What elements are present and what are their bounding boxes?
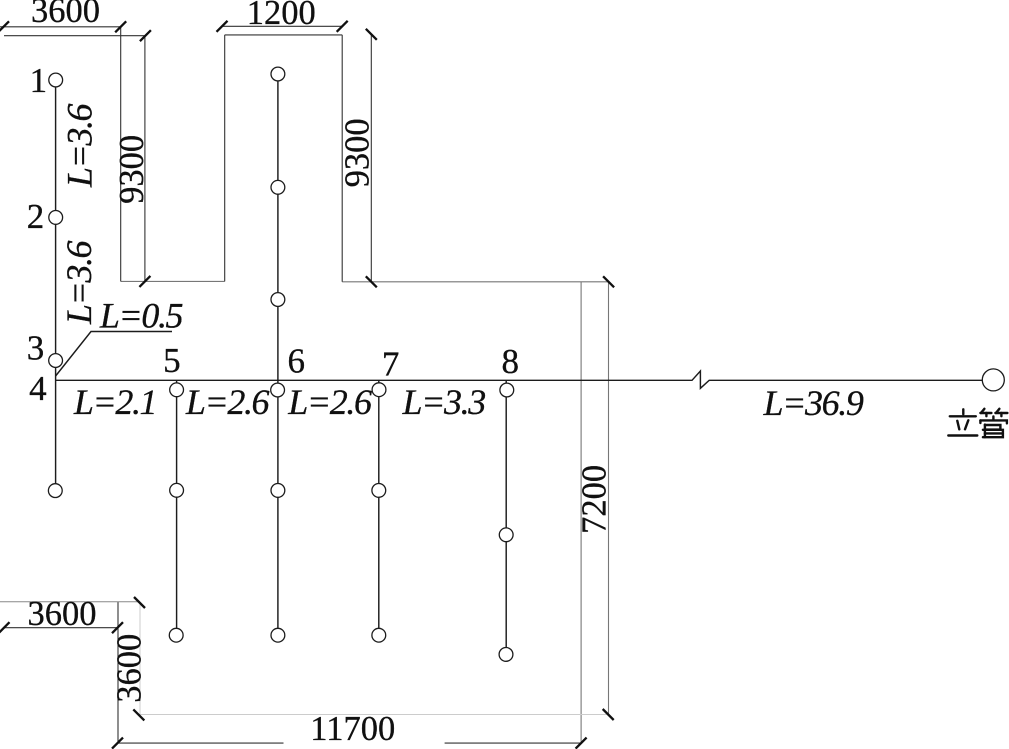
svg-text:9300: 9300: [339, 118, 377, 187]
svg-text:L=2.6: L=2.6: [287, 382, 372, 422]
svg-text:11700: 11700: [310, 710, 395, 748]
svg-text:9300: 9300: [113, 135, 151, 204]
svg-text:3600: 3600: [111, 634, 149, 703]
svg-text:L=3.6: L=3.6: [59, 240, 99, 325]
svg-text:2: 2: [27, 197, 45, 236]
svg-text:L=2.6: L=2.6: [185, 382, 270, 422]
svg-text:L=3.3: L=3.3: [402, 382, 486, 422]
svg-text:6: 6: [287, 341, 305, 380]
svg-text:5: 5: [163, 341, 181, 380]
svg-text:7200: 7200: [576, 465, 614, 534]
svg-text:L=3.6: L=3.6: [59, 103, 99, 188]
svg-text:L=0.5: L=0.5: [99, 296, 183, 336]
svg-text:4: 4: [29, 369, 47, 408]
svg-text:L=2.1: L=2.1: [73, 382, 156, 422]
svg-text:7: 7: [382, 344, 400, 383]
svg-text:1: 1: [30, 61, 48, 100]
svg-text:3600: 3600: [31, 0, 100, 30]
svg-text:3600: 3600: [28, 595, 97, 633]
svg-text:8: 8: [502, 342, 520, 381]
svg-text:3: 3: [27, 328, 45, 367]
svg-text:L=36.9: L=36.9: [763, 383, 864, 423]
svg-text:1200: 1200: [247, 0, 316, 32]
